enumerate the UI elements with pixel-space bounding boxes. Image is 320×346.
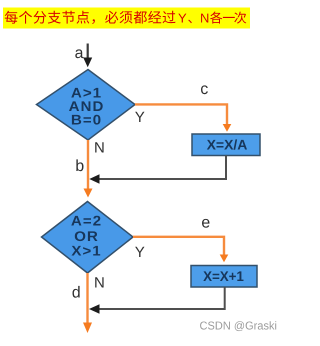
node label c — [201, 85, 208, 94]
process box P2: X=X+1 — [191, 266, 257, 288]
header caption text: 每个分支节点，必须都经过 Y、N各一次 (red) — [5, 11, 247, 24]
label Y (D1 true branch) — [135, 112, 144, 122]
label Y (D2 true branch) — [135, 247, 144, 257]
wire: D1 N-branch orange down to D2 — [84, 140, 93, 198]
wire: D2 N-branch orange down to exit arrow — [83, 273, 92, 333]
header highlight bar — [3, 8, 250, 29]
decision diamond D1: A>1 AND B=0 — [37, 70, 136, 141]
watermark CSDN @Graski — [200, 321, 276, 331]
node label a — [75, 49, 83, 58]
label N (D2 false branch) — [95, 277, 103, 287]
wire: P2 return gray wire joining N-line (junction d) — [89, 287, 225, 314]
label N (D1 false branch) — [95, 142, 103, 152]
wire: entry arrow into decision 1 — [83, 44, 92, 68]
node label d — [73, 286, 80, 298]
node label e — [202, 219, 210, 228]
decision diamond D2: A=2 OR X>1 — [42, 202, 134, 274]
node label b — [76, 159, 83, 171]
wire: D1 Y-branch orange to process box 1 — [135, 104, 231, 131]
wire: P1 return gray wire joining N-line (junction b) — [89, 156, 226, 184]
process box P1: X=X/A — [192, 134, 260, 156]
wire: D2 Y-branch orange to process box 2 — [133, 237, 228, 262]
